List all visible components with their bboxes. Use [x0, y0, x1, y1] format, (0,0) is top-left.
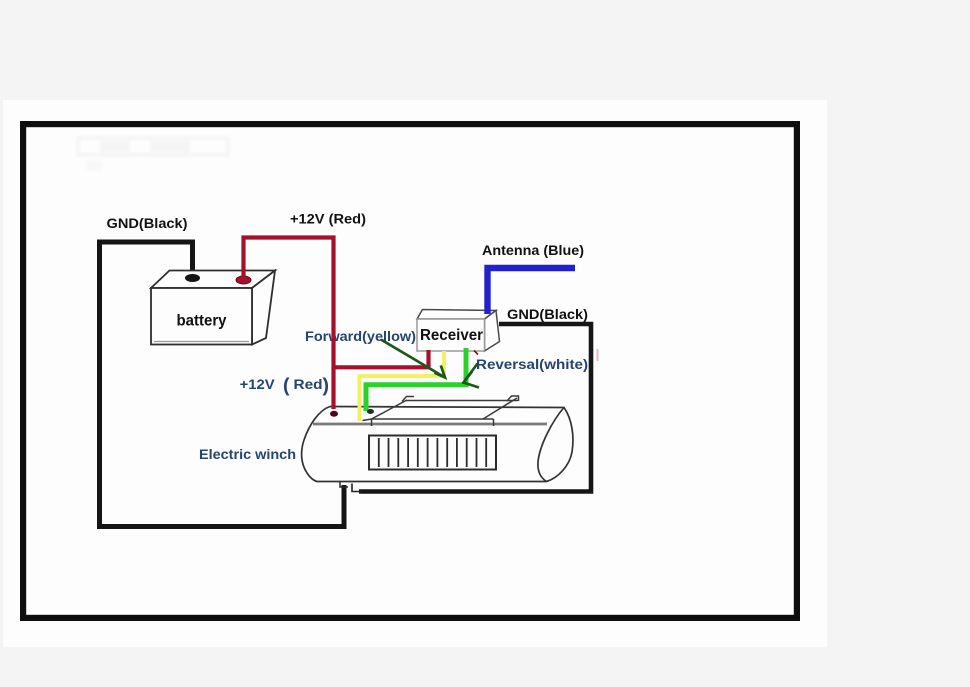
svg-text:battery: battery [177, 313, 227, 330]
arrow reversal [464, 364, 480, 388]
svg-text:+12V (Red): +12V (Red) [290, 212, 366, 228]
winch drum [369, 436, 496, 470]
photo background [3, 100, 827, 647]
red ghost artifact [597, 349, 599, 361]
svg-text:Reversal(white): Reversal(white) [476, 357, 588, 373]
wire end dot green on winch [367, 409, 374, 414]
winch front top edge [313, 423, 547, 426]
battery terminal negative [185, 274, 200, 282]
receiver U1 [417, 310, 500, 352]
watermark [78, 138, 228, 171]
winch mounting plate [363, 396, 519, 426]
wire antenna blue [488, 268, 576, 314]
winch foot [340, 482, 348, 488]
red tick under receiver [474, 351, 478, 355]
svg-text:Electric winch: Electric winch [199, 447, 296, 463]
svg-text:Antenna (Blue): Antenna (Blue) [482, 243, 584, 259]
wire +12V red from battery [244, 238, 334, 410]
winch right cap inner edge [538, 408, 564, 482]
wire GND black from battery to bottom [100, 242, 345, 527]
winch bracket step [352, 484, 361, 492]
arrow forward [381, 340, 445, 378]
battery terminal positive [236, 276, 251, 284]
border frame [23, 124, 797, 618]
winch body [302, 407, 573, 482]
wire end dot red on winch [330, 411, 338, 417]
svg-text:GND(Black): GND(Black) [107, 216, 188, 232]
wire forward yellow [360, 351, 445, 421]
svg-text:Forward(yellow): Forward(yellow) [305, 329, 416, 345]
wire GND black from receiver [359, 324, 591, 492]
svg-text:GND(Black): GND(Black) [507, 307, 588, 323]
svg-text:Receiver: Receiver [420, 327, 483, 344]
wire reversal green [366, 348, 466, 411]
battery B1 [151, 271, 275, 345]
wire +12V red branch to receiver [334, 350, 429, 367]
